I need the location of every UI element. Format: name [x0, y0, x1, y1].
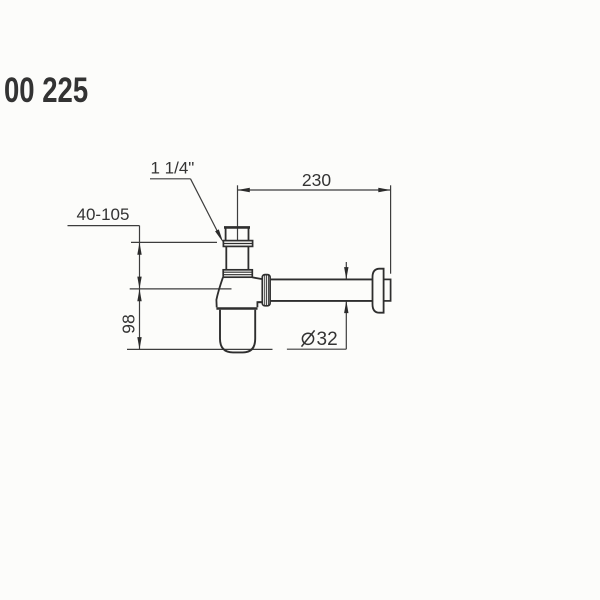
- outlet pipe walls: [270, 279, 372, 301]
- dimension 40-105 and 98 (left chained dimension): [68, 226, 273, 350]
- arrowhead down at pipe top: [344, 267, 348, 279]
- leader underline: [150, 178, 191, 180]
- svg-text:98: 98: [119, 314, 139, 333]
- upper arrow line: [345, 262, 347, 279]
- inlet pipe upper walls: [226, 228, 249, 241]
- arrowhead down at pipe axis: [137, 277, 141, 289]
- svg-text:230: 230: [302, 170, 331, 190]
- outlet ribbed nut: [262, 275, 270, 306]
- leader line: [191, 179, 220, 235]
- body left edge: [216, 277, 223, 307]
- outlet stub top edge: [252, 277, 262, 279]
- svg-text:1 1/4": 1 1/4": [151, 159, 195, 178]
- wall rosette: [373, 269, 384, 313]
- reference line top (nut seat): [131, 241, 217, 243]
- svg-text:32: 32: [317, 329, 338, 350]
- inlet pipe top rim: [224, 226, 250, 229]
- text shelf line: [68, 225, 140, 227]
- dimension diameter 32: [287, 262, 346, 349]
- lower ribbed nut: [223, 270, 252, 277]
- arrowhead up below pipe axis: [137, 289, 141, 301]
- svg-text:40-105: 40-105: [77, 205, 130, 224]
- arrowhead up at nut seat: [137, 242, 141, 254]
- body bottom rim: [216, 307, 257, 309]
- arrowhead left of 230: [238, 188, 250, 193]
- extension line left (through inlet pipe axis): [237, 185, 239, 240]
- upper slip nut: [223, 241, 252, 247]
- diameter symbol: [302, 330, 315, 346]
- reference line middle (pipe axis): [130, 288, 232, 290]
- outlet stub bottom edge: [257, 301, 262, 303]
- arrowhead down at cup bottom: [137, 337, 141, 349]
- wall pipe stub behind rosette: [384, 279, 391, 301]
- part number label 00 225: [4, 69, 88, 109]
- reference line bottom (cup bottom): [127, 348, 273, 350]
- svg-text:00 225: 00 225: [4, 69, 88, 109]
- arrowhead right of 230: [378, 188, 390, 193]
- dimension 230 (top): [238, 185, 391, 273]
- label 1 1/4 inch with leader: [150, 159, 223, 243]
- leader arrowhead: [215, 229, 223, 242]
- body right edge and step: [257, 302, 262, 307]
- arrowhead up at pipe bottom: [344, 301, 348, 313]
- extension line right (at wall stub): [390, 185, 392, 273]
- cup (bottle): [220, 310, 255, 353]
- trap body housing: [216, 277, 262, 308]
- inlet pipe lower walls: [226, 246, 248, 269]
- dimension line 230: [238, 189, 391, 191]
- lower arrow line to shelf: [345, 301, 347, 349]
- vertical dimension line: [139, 226, 141, 350]
- text shelf: [287, 348, 346, 350]
